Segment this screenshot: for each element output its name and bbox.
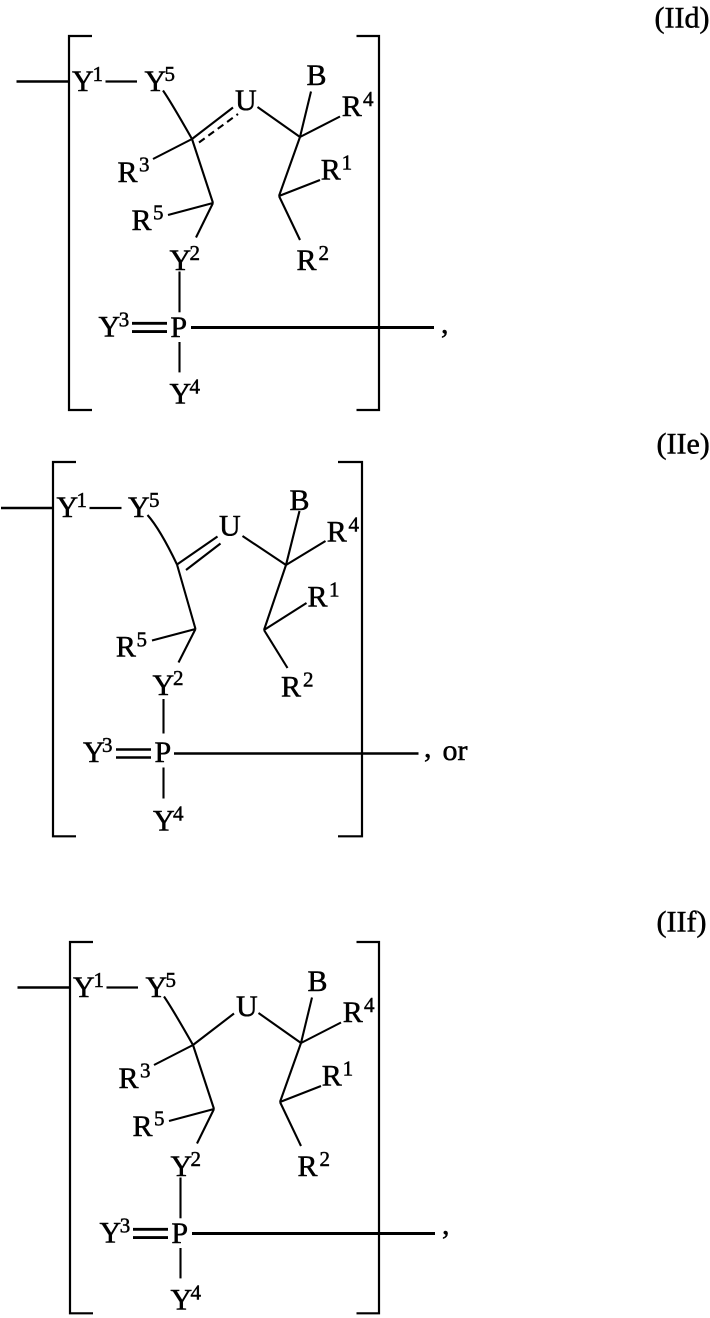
bond C3-R1 S2	[264, 603, 307, 630]
svg-text:U: U	[235, 84, 257, 117]
bond C4-R5 S2	[152, 629, 196, 641]
bond P-Y4 S2	[162, 768, 164, 799]
svg-text:2: 2	[320, 1147, 331, 1171]
svg-text:or: or	[443, 734, 468, 767]
svg-text:Y: Y	[146, 971, 168, 1004]
svg-text:,: ,	[424, 731, 432, 764]
double bond Y3=P S1	[132, 322, 167, 325]
svg-text:R: R	[297, 244, 317, 277]
svg-text:B: B	[308, 965, 328, 998]
bond U-C2 S2	[243, 536, 287, 565]
double bond C1=U S2	[177, 537, 218, 565]
bond U-C2 S1	[258, 107, 301, 137]
svg-text:2: 2	[191, 1147, 202, 1171]
bond C2-C3 S2	[264, 565, 286, 630]
bond P-exit S2	[174, 752, 419, 755]
svg-text:U: U	[236, 990, 258, 1023]
svg-text:2: 2	[303, 668, 314, 692]
svg-text:,: ,	[442, 1208, 450, 1241]
svg-text:Y: Y	[99, 311, 121, 344]
bond C2-B S3	[301, 998, 312, 1044]
bond C4-Y2 S1	[196, 203, 213, 238]
bond Y1-Y5 S1	[106, 80, 138, 82]
bond Y1-Y5 S2	[90, 507, 122, 509]
bracket left S2	[53, 462, 76, 836]
svg-text:5: 5	[137, 628, 148, 652]
svg-text:P: P	[155, 736, 172, 769]
svg-text:5: 5	[149, 488, 160, 512]
bond C3-R2 S1	[279, 196, 300, 240]
svg-text:5: 5	[165, 62, 176, 86]
svg-text:4: 4	[191, 1281, 202, 1305]
svg-text:5: 5	[154, 1107, 165, 1131]
svg-text:R: R	[116, 631, 136, 664]
bond C2-C3 S1	[279, 137, 300, 196]
bond C4-Y2 S3	[197, 1109, 214, 1144]
svg-text:Y: Y	[57, 491, 79, 524]
svg-text:3: 3	[139, 153, 150, 177]
svg-text:1: 1	[329, 578, 340, 602]
svg-text:4: 4	[190, 375, 201, 399]
bracket right S1	[357, 36, 380, 410]
bracket left S1	[69, 36, 92, 410]
bond P-Y4 S1	[178, 342, 180, 372]
svg-text:U: U	[219, 510, 241, 543]
svg-text:Y: Y	[170, 378, 192, 411]
bond into bracket S2	[1, 507, 52, 509]
svg-text:(IId): (IId)	[655, 2, 710, 35]
svg-text:Y: Y	[128, 491, 150, 524]
svg-text:5: 5	[166, 968, 177, 992]
svg-text:Y: Y	[100, 1217, 122, 1250]
bond C1-U solid S1	[192, 108, 233, 140]
svg-text:4: 4	[349, 513, 360, 537]
svg-text:(IIe): (IIe)	[657, 428, 710, 461]
svg-text:R: R	[298, 1150, 318, 1183]
bond C1-C4 S2	[177, 565, 196, 630]
svg-text:Y: Y	[171, 1284, 193, 1317]
bond Y2-P S3	[179, 1178, 181, 1219]
svg-text:R: R	[343, 996, 363, 1029]
svg-text:Y: Y	[72, 65, 94, 98]
svg-text:R: R	[321, 154, 341, 187]
bond U-C2 S3	[259, 1013, 302, 1043]
bond C3-R2 S2	[264, 630, 288, 668]
svg-text:2: 2	[319, 241, 330, 265]
bond R3-C1 S1	[153, 139, 192, 159]
svg-text:3: 3	[140, 1059, 151, 1083]
bracket right S3	[357, 942, 380, 1313]
bond Y2-P S1	[178, 272, 180, 313]
svg-text:P: P	[170, 311, 187, 344]
svg-text:B: B	[290, 484, 310, 517]
bond P-Y4 S3	[179, 1248, 181, 1278]
svg-text:Y: Y	[153, 805, 175, 838]
bond C1-C4 S1	[192, 139, 213, 203]
bond C2-R4 S1	[300, 117, 340, 138]
svg-text:(IIf): (IIf)	[657, 906, 707, 939]
bond C2-R4 S3	[301, 1023, 341, 1044]
svg-text:Y: Y	[153, 669, 175, 702]
svg-text:2: 2	[190, 241, 201, 265]
svg-text:Y: Y	[73, 971, 95, 1004]
bond C1-C4 S3	[193, 1045, 214, 1109]
svg-text:R: R	[327, 516, 347, 549]
bond P-exit S1	[191, 326, 434, 329]
bond into bracket S1	[17, 80, 69, 82]
svg-text:4: 4	[364, 993, 375, 1017]
double bond Y3=P S2	[116, 748, 151, 751]
svg-text:R: R	[322, 1060, 342, 1093]
svg-text:R: R	[119, 1062, 139, 1095]
bond C1-U dashed S1	[199, 114, 238, 143]
bond C2-R4 S2	[286, 541, 326, 565]
svg-text:3: 3	[102, 733, 113, 757]
svg-text:4: 4	[363, 87, 374, 111]
svg-text:R: R	[308, 581, 328, 614]
svg-text:1: 1	[77, 488, 88, 512]
svg-text:R: R	[133, 1110, 153, 1143]
bond into bracket S3	[18, 986, 70, 988]
svg-text:1: 1	[93, 62, 104, 86]
bond Y5-C1 S2	[148, 515, 178, 565]
svg-text:3: 3	[119, 308, 130, 332]
bond C4-R5 S3	[169, 1109, 214, 1121]
bond Y5-C1 S1	[163, 91, 192, 140]
svg-text:1: 1	[343, 1057, 354, 1081]
bond Y5-C1 S3	[164, 997, 193, 1046]
bracket right S2	[338, 462, 362, 836]
svg-text:R: R	[132, 204, 152, 237]
bond R3-C1 S3	[154, 1045, 193, 1065]
svg-text:1: 1	[342, 151, 353, 175]
bond C4-Y2 S2	[179, 629, 196, 663]
bond P-exit S3	[192, 1232, 435, 1235]
svg-text:3: 3	[120, 1214, 131, 1238]
svg-text:B: B	[307, 59, 327, 92]
svg-text:,: ,	[441, 307, 449, 340]
svg-text:R: R	[118, 156, 138, 189]
bond C4-R5 S1	[168, 203, 213, 215]
svg-text:R: R	[342, 90, 362, 123]
bond C1-U S3	[193, 1014, 234, 1046]
svg-text:4: 4	[173, 802, 184, 826]
svg-text:5: 5	[153, 201, 164, 225]
double bond Y3=P S3	[133, 1228, 168, 1231]
bond C3-R2 S3	[280, 1102, 301, 1146]
bond C2-C3 S3	[280, 1043, 301, 1102]
svg-text:1: 1	[94, 968, 105, 992]
bond Y1-Y5 S3	[107, 986, 139, 988]
svg-text:Y: Y	[145, 65, 167, 98]
bond C3-R1 S1	[279, 180, 320, 196]
svg-text:2: 2	[173, 666, 184, 690]
bond Y2-P S2	[162, 699, 164, 734]
bracket left S3	[70, 942, 93, 1313]
svg-text:P: P	[171, 1217, 188, 1250]
bond C2-B S2	[286, 511, 300, 565]
bond C3-R1 S3	[280, 1086, 321, 1102]
svg-text:R: R	[281, 671, 301, 704]
bond C2-B S1	[300, 92, 311, 138]
